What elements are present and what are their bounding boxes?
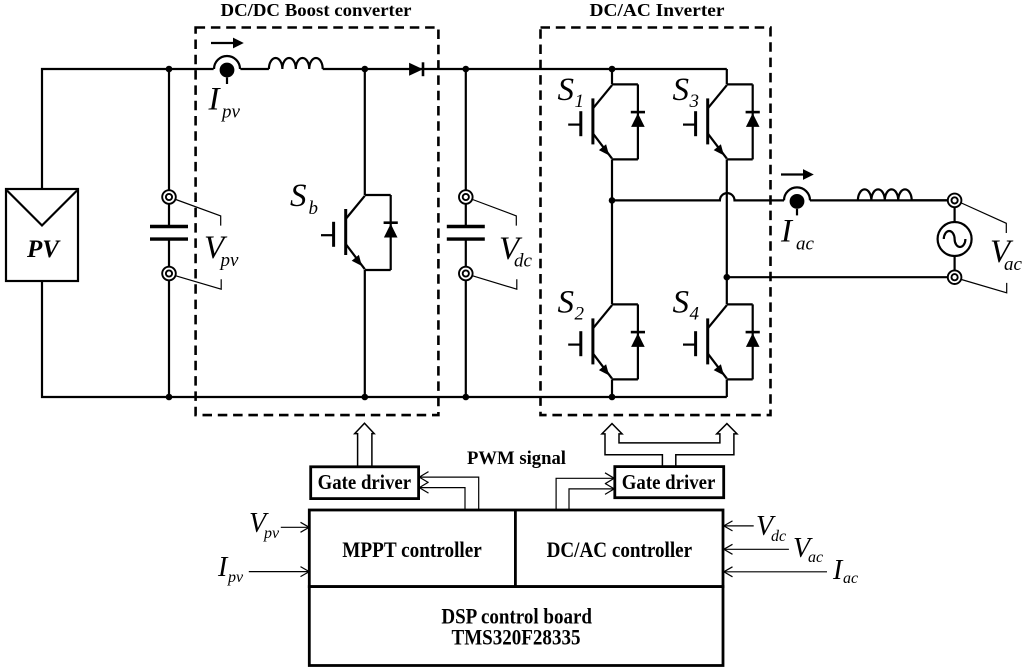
svg-text:4: 4 [690,304,700,325]
dashed box: DC/DC Boost converter [196,28,439,416]
svg-text:2: 2 [575,304,585,325]
probe: Vpv top [162,190,176,204]
divider MPPT / DC-AC [514,510,517,587]
PV panel [6,189,78,281]
wire: PV bottom lead [42,281,169,397]
wire: PWM feed right upper [556,478,614,510]
node: bottom rail / S2 leg [609,394,616,401]
box: Gate driver (right) [615,467,724,498]
svg-text:TMS320F28335: TMS320F28335 [452,625,581,650]
wire: L2 to grid terminal [912,199,948,201]
bracket: Vdc top [473,200,517,226]
transistor S3 (IGBT) [683,84,760,159]
svg-text:pv: pv [227,569,244,586]
node: bottom rail / Vpv cap [166,394,173,401]
svg-text:DC/AC Inverter: DC/AC Inverter [590,0,725,20]
bracket: Vpv top [176,200,221,226]
bracket: Vac bottom [961,280,1006,293]
probe: Vdc top [459,190,473,204]
probe: Vpv bottom [162,267,176,281]
svg-text:dc: dc [514,251,533,272]
svg-text:S: S [673,285,690,321]
svg-text:ac: ac [843,570,858,587]
node: top rail / Vpv cap [166,66,173,73]
wire: bottom rail [169,396,727,398]
bracket: Vac top [961,203,1006,233]
transistor Sb (IGBT) [321,195,398,270]
svg-text:S: S [673,72,690,108]
transistor S2 (IGBT) [568,304,645,379]
node: top rail / S1 [609,66,616,73]
current sensor Iac [784,187,810,215]
svg-text:ac: ac [808,549,823,566]
wire: S4 emitter to bottom rail [726,379,728,397]
wire: top DC rail [169,68,727,70]
svg-text:dc: dc [771,528,786,545]
AC source Vac [938,207,972,271]
probe: Vdc bottom [459,267,473,281]
node: bottom rail / Vdc cap [463,394,470,401]
svg-text:pv: pv [219,250,240,271]
wire: S1 leg [611,69,613,304]
input arrow Vac [724,533,823,566]
svg-text:S: S [290,178,307,214]
svg-text:PWM signal: PWM signal [467,448,566,469]
input arrow Vpv [249,508,309,542]
svg-text:I: I [780,214,794,250]
svg-text:3: 3 [689,91,700,112]
wire: PWM feed left upper [420,477,479,510]
svg-text:1: 1 [575,91,585,112]
svg-text:S: S [558,285,575,321]
node: top rail / Sb [362,66,369,73]
box: controllers [309,510,723,587]
wire: S3 leg from top rail [726,69,728,304]
dashed box: DC/AC Inverter [541,28,771,416]
inductor L1 [269,58,323,69]
svg-text:ac: ac [796,234,815,255]
wire: PWM feed left lower [420,488,466,510]
svg-text:I: I [208,82,222,118]
wire: S2 emitter to bottom rail [611,379,613,397]
svg-text:Gate driver: Gate driver [622,470,716,494]
svg-text:MPPT controller: MPPT controller [342,537,482,562]
svg-text:Gate driver: Gate driver [318,470,412,494]
svg-text:ac: ac [1004,254,1023,275]
block arrow: PWM to inverter (forked) [602,424,737,467]
bracket: Vdc bottom [473,276,517,289]
capacitor Cpv branch wire [168,69,170,397]
node: top rail / Vdc cap [463,66,470,73]
wire: AC output upper with hop over S3 leg [612,193,948,200]
svg-text:PV: PV [26,236,61,263]
box: DSP control board [309,587,723,666]
input arrow Iac [724,555,858,587]
inductor L2 [858,189,912,200]
diode D1 [409,62,423,76]
capacitor Cdc [447,227,485,240]
capacitor Cpv [150,227,188,240]
node: bottom rail / Sb [362,394,369,401]
bracket: Vpv bottom [176,276,221,289]
arrow: Iac direction [781,169,814,180]
probe: Vac bottom [948,270,962,284]
wire: PWM feed right lower [569,489,614,510]
probe: Vac top [948,194,962,208]
transistor S4 (IGBT) [683,304,760,379]
svg-text:DC/AC controller: DC/AC controller [547,537,693,562]
capacitor Cdc branch wire [465,69,467,397]
svg-text:pv: pv [220,102,241,123]
wire: Sb branch [364,69,366,397]
box: Gate driver (left) [311,467,419,499]
arrow: Ipv direction [211,38,244,49]
block arrow: PWM to boost [355,423,375,467]
wire: AC output lower [727,276,948,278]
input arrow Vdc [724,511,786,545]
input arrow Ipv [217,552,309,586]
svg-text:b: b [309,198,319,219]
wire: PV top lead [42,69,169,189]
transistor S1 (IGBT) [568,84,645,159]
svg-text:S: S [558,72,575,108]
current sensor Ipv [214,56,240,84]
node: S1-S2 midpoint [609,197,616,204]
node: S3-S4 output tap [724,274,731,281]
svg-text:pv: pv [263,525,280,542]
svg-text:DC/DC Boost converter: DC/DC Boost converter [221,0,412,20]
